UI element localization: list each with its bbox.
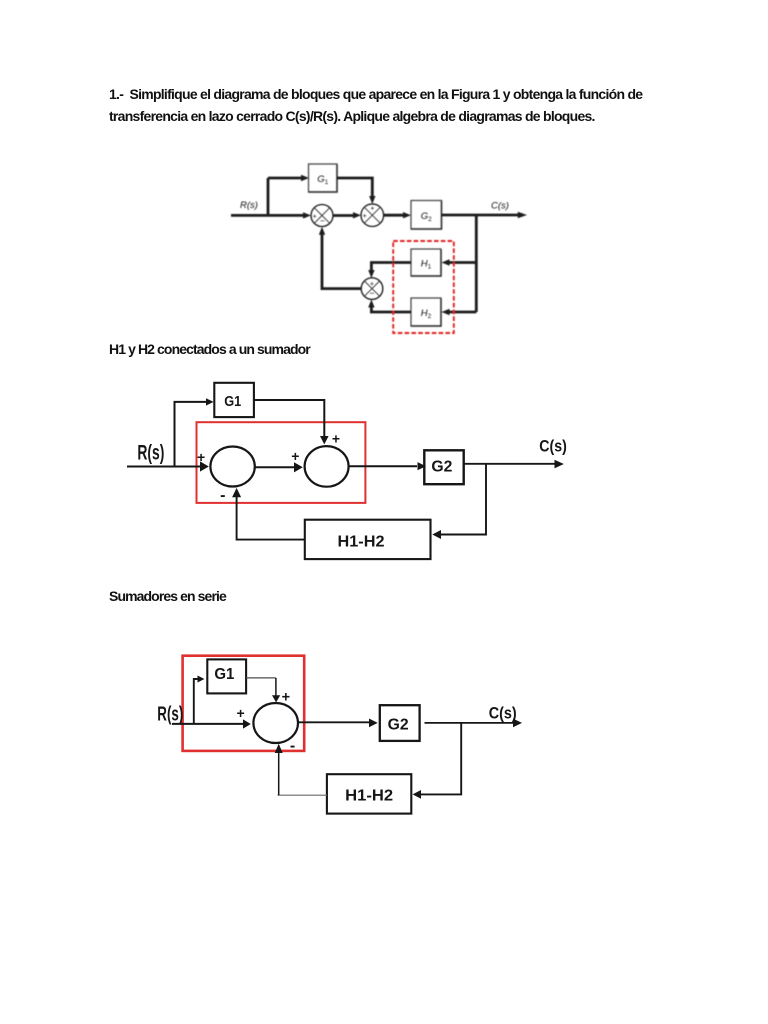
svg-text:+: +: [363, 213, 367, 220]
block H1-H2: [305, 520, 431, 559]
problem statement: [109, 83, 669, 127]
summer S1 (crossed circle): [311, 205, 333, 227]
summer S3 (crossed circle): [361, 278, 383, 300]
svg-text:H1: H1: [421, 259, 432, 271]
svg-text:+: +: [313, 213, 317, 220]
block H1: [411, 249, 441, 276]
svg-text:−: −: [320, 217, 325, 226]
svg-text:R(s): R(s): [137, 442, 164, 465]
wire: feedback left (light thin): [278, 794, 327, 796]
block G2: [424, 450, 463, 484]
block G1: [309, 164, 338, 192]
svg-text:R(s): R(s): [157, 704, 183, 726]
Figure 3: Sumadores en serie: [0, 645, 768, 835]
summer B: [305, 446, 349, 487]
wire: A to B: [255, 466, 294, 468]
wire: H2 output into S3 bottom: [371, 306, 411, 312]
node: output branch: [475, 215, 478, 312]
wire: B to G2: [349, 465, 417, 467]
wire: output line to C(s): [442, 214, 520, 217]
labels: [137, 394, 566, 551]
wire: output to C(s): [425, 722, 514, 724]
svg-text:G1: G1: [214, 666, 234, 683]
wire: summer to G2: [299, 721, 369, 723]
svg-text:C(s): C(s): [539, 437, 567, 456]
svg-text:-: -: [220, 487, 225, 504]
wire: S1 to S2: [333, 214, 354, 217]
wire: G1 output down into B: [254, 400, 324, 436]
svg-text:G1: G1: [317, 174, 328, 186]
svg-text:+: +: [282, 690, 290, 706]
wire: branch down to H1-H2: [421, 723, 461, 795]
wire: branch up and into G1: [175, 402, 207, 467]
arrow into summer 1: [303, 212, 311, 218]
red box around summer and G1: [183, 656, 305, 751]
block G1: [214, 383, 254, 417]
svg-text:+: +: [237, 705, 245, 721]
svg-text:C(s): C(s): [491, 201, 509, 212]
svg-text:−: −: [369, 289, 374, 298]
heading 3: [109, 585, 669, 607]
wire: H1 output into S3 top: [371, 263, 411, 272]
wire: into H2: [447, 311, 476, 314]
Figure 2: H1 y H2 conectados a un sumador: [0, 370, 768, 585]
wire: branch to G1: [268, 177, 301, 180]
block G2: [411, 201, 442, 230]
summer A: [210, 447, 254, 487]
wire: down into summer top: [275, 678, 277, 696]
red box around the two summers: [197, 422, 366, 503]
labels: [157, 666, 516, 804]
wire: feedback up into summer bottom: [278, 751, 280, 795]
heading 2: [109, 338, 669, 360]
svg-text:+: +: [332, 430, 340, 446]
svg-text:+: +: [197, 449, 205, 465]
wire: R(s) input into summer A: [127, 466, 200, 468]
svg-text:R(s): R(s): [240, 200, 258, 211]
summer circle: [253, 703, 298, 743]
red dashed box around H1 H2: [393, 241, 454, 333]
svg-text:H1-H2: H1-H2: [338, 534, 385, 551]
Figura 1: scanned block diagram: [0, 150, 768, 350]
wire: G1 output across (thin): [246, 677, 276, 679]
node: input branch point: [267, 178, 270, 215]
wire: R(s) input line: [231, 214, 303, 217]
svg-text:+: +: [370, 206, 374, 213]
svg-text:H2: H2: [421, 308, 432, 320]
block G2: [380, 705, 420, 741]
svg-text:G2: G2: [431, 458, 452, 475]
labels: [240, 174, 509, 320]
block H2: [411, 298, 441, 326]
wire: branch down to H1-H2: [441, 464, 486, 535]
svg-text:H1-H2: H1-H2: [345, 787, 393, 804]
wire: branch up to G1: [194, 679, 198, 724]
wire: S2 to G2: [384, 214, 404, 217]
block H1-H2: [327, 774, 411, 813]
svg-text:G1: G1: [224, 394, 241, 410]
svg-text:G2: G2: [421, 211, 432, 223]
svg-text:C(s): C(s): [489, 703, 517, 722]
block G1: [207, 659, 246, 693]
svg-text:G2: G2: [388, 717, 409, 734]
svg-text:-: -: [290, 738, 295, 755]
summer S2 (crossed circle): [361, 204, 384, 227]
wire: output line to C(s): [464, 463, 555, 465]
wire: R(s) input: [172, 723, 243, 725]
svg-text:+: +: [370, 281, 374, 288]
wire: into H1: [447, 261, 476, 264]
wire: S3 output up into S1: [322, 232, 361, 289]
wire: feedback into A bottom: [237, 497, 305, 540]
wire: G1 output down into S2: [337, 178, 372, 197]
svg-text:+: +: [291, 448, 299, 464]
